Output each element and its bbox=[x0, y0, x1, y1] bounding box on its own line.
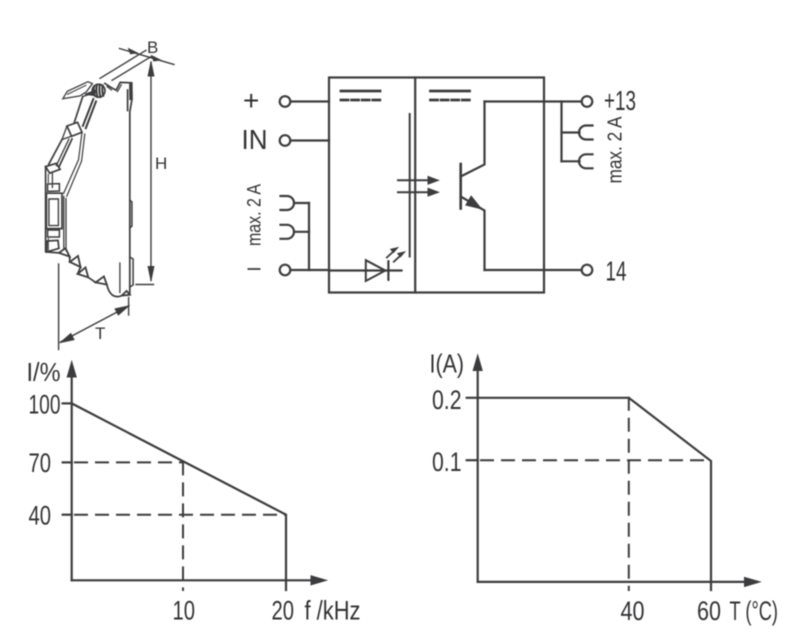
left contact bus vertical bbox=[308, 203, 310, 270]
housing terminal block inner bbox=[49, 199, 59, 226]
housing bottom tooth 1 bbox=[59, 248, 70, 256]
LED light arrow 1 bbox=[387, 248, 398, 258]
terminal I circle bbox=[280, 265, 291, 276]
housing right edge inner line bbox=[127, 90, 129, 111]
dimension B arrow 2 bbox=[152, 56, 160, 61]
housing terminal block depth line bbox=[64, 197, 66, 251]
right graph x axis bbox=[478, 581, 747, 583]
housing bottom tooth 2 bbox=[70, 256, 81, 267]
svg-text:0.1: 0.1 bbox=[432, 447, 462, 477]
dimension H arrow top bbox=[148, 62, 154, 76]
right graph dashed vertical 40 bbox=[628, 398, 630, 590]
left graph y axis bbox=[71, 374, 73, 580]
housing bottom tooth 3 bbox=[78, 267, 89, 277]
svg-text:40: 40 bbox=[621, 596, 645, 626]
svg-text:40: 40 bbox=[29, 501, 52, 531]
housing staircase joint box bbox=[67, 122, 82, 136]
dimension B rail 1 bbox=[100, 50, 146, 78]
housing staircase band 2 outer bbox=[49, 140, 62, 165]
svg-text:I: I bbox=[245, 266, 265, 271]
right graph curve bbox=[478, 398, 711, 590]
dc symbol right solid bbox=[431, 90, 470, 93]
dimension H base line bbox=[136, 284, 154, 286]
coupling arrow 2 bbox=[398, 191, 429, 193]
dimension T arrow right bbox=[115, 306, 129, 315]
right graph dashed 0.1 bbox=[481, 459, 711, 461]
dimension H arrow bottom bbox=[148, 267, 154, 281]
svg-text:20: 20 bbox=[272, 596, 295, 626]
left jumper contact 2 bbox=[281, 225, 295, 239]
left jumper contact 1 bbox=[281, 196, 295, 210]
svg-text:70: 70 bbox=[29, 448, 52, 478]
svg-text:100: 100 bbox=[29, 390, 61, 420]
dimension T line bbox=[61, 306, 129, 342]
transistor base bar bbox=[459, 164, 462, 209]
svg-text:B: B bbox=[147, 38, 158, 57]
LED diode triangle bbox=[366, 260, 386, 281]
transistor emitter arrow bbox=[466, 197, 480, 209]
wire contact2 to bus bbox=[294, 231, 309, 233]
coupling arrow 1 bbox=[398, 179, 429, 181]
dimension T extension left bbox=[58, 264, 60, 350]
collector wire to +13 bbox=[485, 100, 582, 102]
terminal +13 circle bbox=[582, 96, 593, 107]
housing staircase band 1 dark stripe a bbox=[83, 99, 93, 126]
svg-text:max. 2 A: max. 2 A bbox=[244, 184, 265, 246]
terminal + circle bbox=[280, 96, 291, 107]
housing left edge bbox=[45, 167, 47, 252]
housing top face right inner bbox=[107, 85, 121, 92]
right graph tick 0.2 bbox=[467, 397, 478, 399]
dimension H line bbox=[150, 62, 152, 281]
housing staircase band 1 top edge bbox=[83, 93, 94, 97]
svg-text:10: 10 bbox=[173, 596, 196, 626]
housing clip tab lower (foot) bbox=[130, 257, 133, 287]
right jumper contact 1 bbox=[579, 126, 593, 140]
housing marker circle hatch bbox=[94, 85, 103, 98]
dc symbol left dashed bbox=[341, 99, 380, 102]
left graph dashed vertical 10 bbox=[182, 462, 184, 590]
left graph x arrow bbox=[311, 576, 327, 585]
right jumper contact 2 bbox=[579, 154, 593, 168]
housing bottom box bbox=[47, 240, 59, 252]
svg-text:IN: IN bbox=[242, 124, 268, 155]
left graph tick 40 bbox=[63, 514, 72, 516]
wire bus to right contact 2 bbox=[562, 160, 580, 162]
housing top hood inner line bbox=[68, 85, 86, 94]
svg-text:0.2: 0.2 bbox=[432, 385, 462, 415]
housing bottom tooth 4 bbox=[96, 276, 107, 284]
wire I to box bbox=[291, 269, 330, 271]
right graph x arrow bbox=[745, 577, 761, 586]
left graph tick 100 bbox=[63, 402, 72, 404]
housing staircase band 1 dark stripe b bbox=[86, 101, 96, 128]
emitter wire to 14 bbox=[485, 269, 582, 271]
housing staircase band 2 middle bbox=[56, 139, 69, 165]
isolation barrier line bbox=[409, 114, 411, 257]
module box bbox=[329, 78, 544, 293]
wire IN to box bbox=[291, 139, 330, 141]
left graph dashed 70 bbox=[75, 461, 183, 463]
LED wire bbox=[329, 269, 402, 271]
housing bottom silhouette bbox=[47, 252, 122, 297]
housing top hood bbox=[63, 82, 93, 99]
housing bottom tooth 5 bbox=[122, 291, 130, 296]
housing staircase band 2 top edge bbox=[62, 126, 72, 140]
svg-text:+: + bbox=[243, 85, 259, 116]
housing clip tab upper bbox=[130, 200, 132, 228]
transistor collector bbox=[461, 102, 485, 177]
divider bbox=[414, 78, 416, 293]
housing staircase band 1 left edge bbox=[74, 97, 83, 124]
housing terminal step bbox=[48, 184, 60, 192]
left graph y arrow bbox=[67, 362, 76, 378]
left graph x axis bbox=[72, 579, 314, 581]
svg-text:T (°C): T (°C) bbox=[730, 596, 779, 626]
dimension T extension right bbox=[128, 298, 130, 316]
svg-text:14: 14 bbox=[606, 256, 627, 287]
housing right edge bbox=[130, 83, 132, 293]
LED cathode bar bbox=[387, 261, 389, 280]
LED light arrow 2 bbox=[394, 252, 405, 262]
left graph dashed 40 bbox=[75, 514, 286, 516]
left graph curve bbox=[72, 403, 286, 590]
dimension T arrow left bbox=[61, 334, 75, 343]
housing marker circle bbox=[92, 84, 105, 97]
dimension B line bbox=[120, 49, 175, 65]
housing left edge inner lower bbox=[47, 175, 49, 251]
right graph tick 0.1 bbox=[467, 459, 478, 461]
housing right edge shaded notch bbox=[129, 84, 132, 99]
left graph tick 70 bbox=[63, 461, 72, 463]
svg-text:I(A): I(A) bbox=[430, 351, 465, 379]
svg-text:H: H bbox=[155, 154, 167, 173]
wire bus to right contact 1 bbox=[562, 131, 580, 133]
wire contact1 to bus bbox=[294, 202, 309, 204]
wire + to box bbox=[291, 100, 330, 102]
svg-text:+13: +13 bbox=[604, 85, 636, 116]
housing staircase bottom box bbox=[46, 163, 61, 173]
terminal 14 circle bbox=[582, 265, 593, 276]
dc symbol left solid bbox=[341, 90, 380, 93]
dimension B rail 2 bbox=[112, 56, 152, 80]
right graph y axis bbox=[477, 368, 479, 582]
right graph y arrow bbox=[473, 355, 482, 371]
svg-text:f /kHz: f /kHz bbox=[305, 596, 361, 626]
housing front face edge upper bbox=[64, 132, 85, 196]
housing terminal block outer bbox=[46, 193, 62, 228]
terminal IN circle bbox=[280, 135, 291, 146]
housing top face right bbox=[105, 82, 132, 90]
housing staircase band 2 inner bbox=[59, 139, 72, 166]
dc symbol right dashed bbox=[431, 99, 470, 102]
housing left edge inner bbox=[51, 173, 53, 188]
housing bottom inner corner bbox=[119, 263, 121, 293]
housing lower block bbox=[48, 230, 60, 237]
svg-text:max. 2 A: max. 2 A bbox=[605, 116, 627, 184]
svg-text:I/%: I/% bbox=[27, 357, 61, 387]
right contact bus vertical bbox=[560, 102, 562, 162]
housing top flap bbox=[85, 90, 96, 95]
svg-text:T: T bbox=[95, 324, 105, 343]
dimension B arrow 1 bbox=[129, 49, 137, 54]
transistor emitter bbox=[461, 197, 485, 271]
svg-text:60: 60 bbox=[697, 596, 721, 626]
